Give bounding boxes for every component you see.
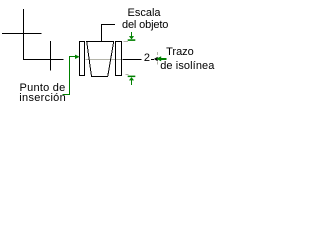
node gray extension dash top [124, 41, 129, 43]
label Punto de insercion [20, 83, 66, 94]
block right rectangle [116, 42, 122, 76]
wire green leader from Trazo label [161, 58, 167, 60]
label 2 isoline count [144, 53, 150, 64]
node green arrowhead insertion point [75, 55, 80, 59]
node green arrowhead isoline stroke [156, 56, 161, 61]
node gray extension dash bottom [125, 74, 128, 76]
wire H1 left wall horizontal [2, 33, 42, 35]
label Escala del objeto [128, 8, 161, 19]
node gray extension dash vertical lower right [157, 62, 159, 65]
node gray isoline through block [86, 59, 122, 61]
wire black leader from Escala label to block top [102, 25, 116, 42]
node black arrowhead pointing right at extension [154, 57, 158, 62]
block center trapezoid [87, 42, 114, 77]
wire black dimension line to 2 [123, 59, 142, 61]
wire V1 left wall vertical [23, 9, 25, 60]
node green scale arrow top [131, 32, 133, 37]
node gray extension dash vertical upper right [157, 52, 159, 55]
node green scale arrow bottom [128, 76, 136, 78]
wire black dash after 2 [151, 59, 154, 61]
wire green leader from Punto de insercion [63, 57, 76, 95]
block left rectangle [80, 42, 85, 76]
label Trazo de isolinea [166, 47, 194, 58]
wire V2 second vertical [50, 41, 52, 71]
wire H2 bottom horizontal [23, 59, 64, 61]
